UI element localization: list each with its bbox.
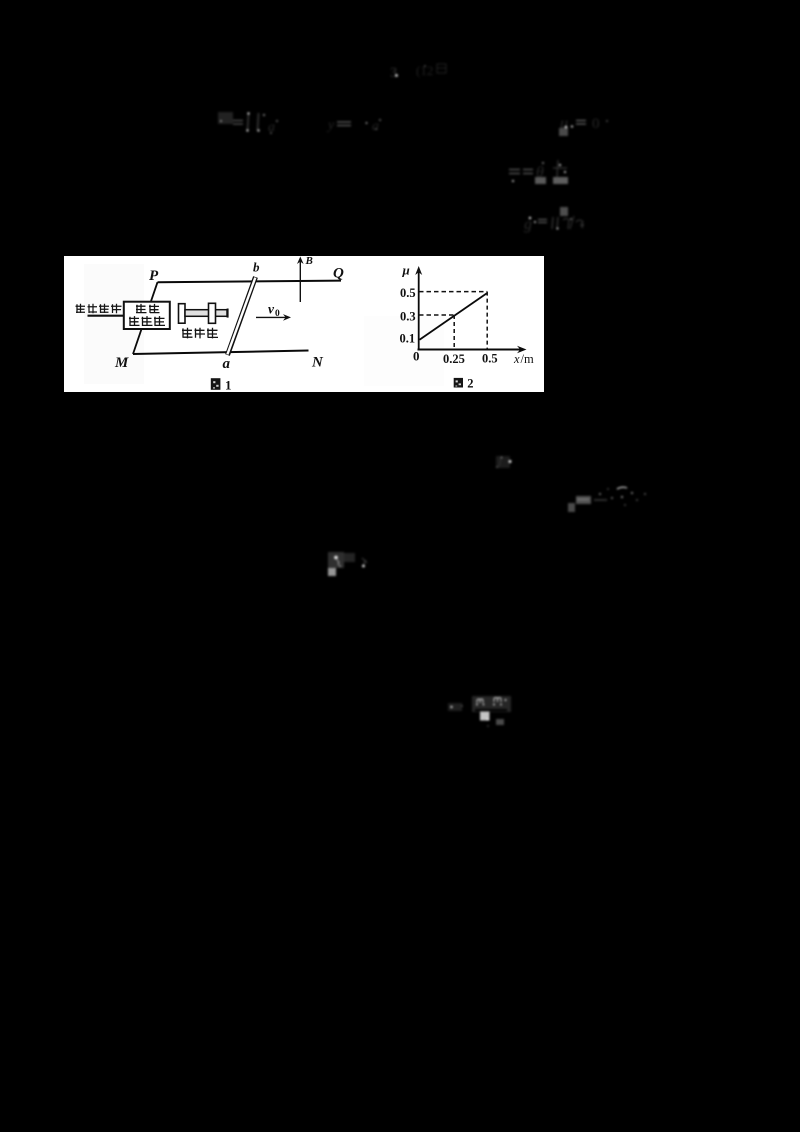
svg-text:0.3: 0.3 bbox=[400, 310, 416, 324]
rail P-Q (top rail of inclined plane) bbox=[158, 281, 342, 283]
svg-text:(12: (12 bbox=[416, 63, 433, 78]
white panel background bbox=[64, 256, 544, 392]
svg-text:3: 3 bbox=[390, 65, 398, 81]
rail M-N (bottom rail) bbox=[133, 351, 309, 355]
svg-text:P: P bbox=[149, 268, 159, 284]
svg-text:0: 0 bbox=[413, 349, 420, 364]
svg-text:0.25: 0.25 bbox=[443, 352, 465, 366]
svg-text:x: x bbox=[513, 352, 520, 366]
dashed guide x=0.5 vertical bbox=[486, 292, 488, 349]
graph x-axis bbox=[418, 349, 523, 351]
svg-text:y: y bbox=[326, 118, 335, 133]
svg-text:0.1: 0.1 bbox=[400, 332, 416, 346]
svg-text:0.5: 0.5 bbox=[400, 286, 416, 300]
faint formula fragment B "v=10." bbox=[218, 112, 278, 135]
caption 图2 bbox=[454, 378, 463, 388]
initial velocity arrow v0 bbox=[256, 316, 287, 318]
launcher (弹射器) left plate bbox=[179, 304, 186, 324]
svg-text:/m: /m bbox=[521, 352, 534, 366]
svg-text:a: a bbox=[223, 356, 231, 372]
tiny faint mark H bbox=[496, 456, 512, 468]
svg-text:b: b bbox=[253, 260, 260, 275]
faint fragment I "f=mgcosθ" bbox=[568, 487, 646, 512]
svg-text:0: 0 bbox=[275, 309, 280, 319]
label 弹射器 (launcher) bbox=[182, 328, 218, 339]
svg-text:1: 1 bbox=[225, 378, 232, 393]
label 电流 (current) bbox=[136, 304, 160, 313]
svg-text:N: N bbox=[311, 355, 324, 371]
svg-text:0.5: 0.5 bbox=[482, 352, 498, 366]
μ(x) line bbox=[420, 293, 488, 340]
label 接计算机 (connect to computer) bbox=[76, 304, 122, 313]
magnetic field arrow B bbox=[299, 259, 301, 303]
left edge P-M of plane bbox=[133, 282, 158, 354]
svg-text:μ: μ bbox=[402, 263, 410, 278]
svg-text:0: 0 bbox=[592, 116, 600, 132]
svg-text:2: 2 bbox=[467, 376, 473, 390]
faint fragment J "3." bbox=[328, 552, 367, 576]
current sensor box bbox=[124, 302, 170, 329]
launcher shaft bbox=[185, 310, 227, 317]
graph y-axis (μ axis) bbox=[418, 269, 420, 350]
dashed guide x=0.25 vertical bbox=[453, 315, 455, 349]
svg-text:B: B bbox=[305, 255, 313, 267]
wire to computer bbox=[88, 315, 126, 317]
svg-text:M: M bbox=[114, 355, 129, 371]
dashed guide 0.3 horizontal bbox=[419, 314, 454, 316]
svg-text:v: v bbox=[268, 302, 275, 317]
faint formula fragment D "μ=0." bbox=[559, 115, 608, 136]
dashed guide 0.5 horizontal bbox=[419, 291, 487, 293]
faint formula fragment C "y=.a" bbox=[326, 118, 381, 134]
figure panel (white scanned image with 图1 and 图2) bbox=[64, 255, 544, 393]
svg-text:a: a bbox=[372, 119, 379, 134]
label 传感器 (sensor) bbox=[129, 316, 165, 326]
conducting rod ab bbox=[228, 277, 256, 355]
svg-text:Q: Q bbox=[333, 266, 344, 282]
faint title fragment "3.(12分)" bbox=[390, 63, 446, 81]
caption 图1 bbox=[211, 378, 221, 390]
faint formula fragment F "g=10m/s²" bbox=[524, 207, 584, 233]
faint fraction fragment K "mg/mg" bbox=[448, 696, 511, 727]
launcher middle plate bbox=[209, 303, 216, 323]
faint formula fragment E "=θ+t" bbox=[509, 160, 568, 184]
launcher shaft end cap bbox=[227, 309, 229, 318]
